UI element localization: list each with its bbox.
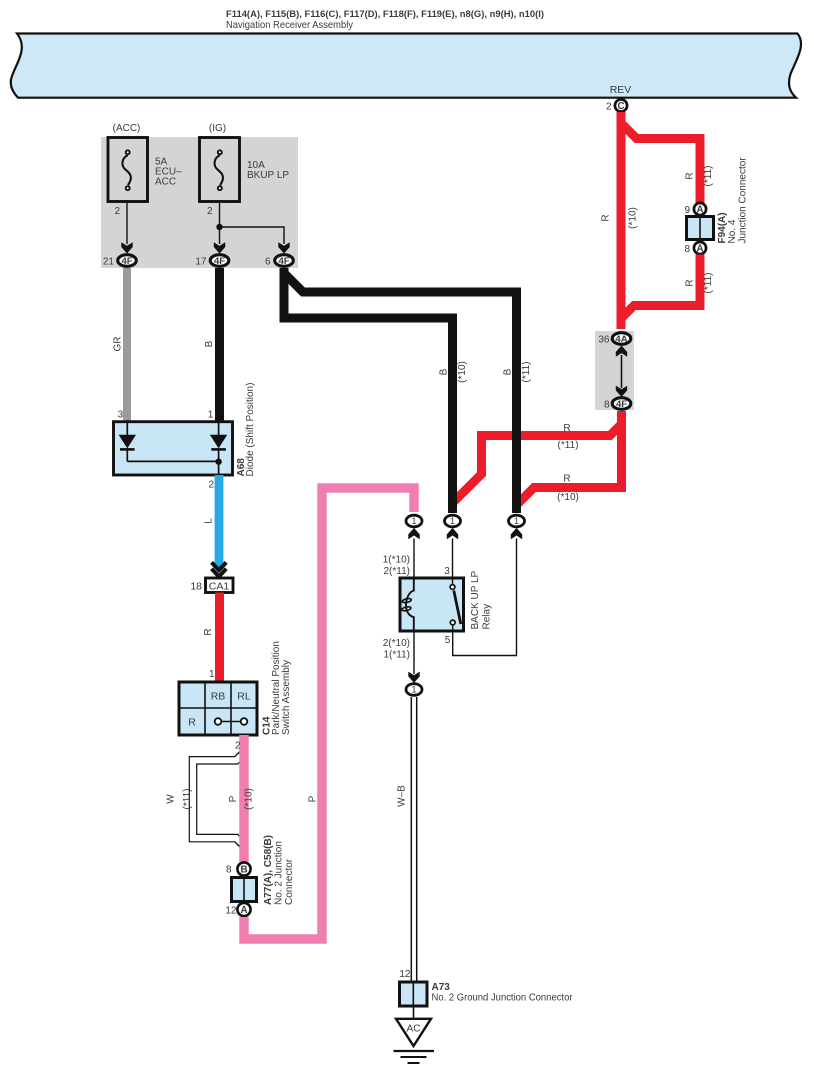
svg-text:4F: 4F [214,256,225,267]
svg-text:2: 2 [208,480,214,491]
wire R main vertical [601,112,639,329]
svg-text:(*11): (*11) [558,440,579,451]
svg-text:ACC: ACC [155,177,176,188]
svg-text:BACK UP LP: BACK UP LP [470,570,481,629]
header title text [226,9,544,31]
svg-text:3: 3 [444,566,450,577]
wire R (*11) lower branch from F94 [621,255,714,319]
svg-text:8: 8 [684,244,690,255]
svg-text:8: 8 [226,865,232,876]
svg-text:Diode (Shift Position): Diode (Shift Position) [245,383,256,477]
svg-text:B: B [439,368,450,375]
wire GR [113,268,128,421]
svg-text:(*11): (*11) [521,362,532,383]
wire R from CA1 to C14 [203,593,220,683]
svg-text:P: P [228,795,239,802]
connector 4F pin 21 [103,242,136,267]
svg-text:4F: 4F [278,256,289,267]
svg-text:2: 2 [606,102,612,113]
ground connector node 1 [406,684,422,696]
ground junction connector A73 [400,982,574,1006]
wire from relay pin 5 to right node [453,539,517,656]
svg-text:Junction Connector: Junction Connector [738,157,749,244]
svg-text:1: 1 [450,516,455,526]
svg-text:R: R [188,717,196,729]
svg-text:8: 8 [604,400,610,411]
wire W-B double line [397,697,417,982]
svg-text:1: 1 [411,516,416,526]
svg-text:(*10): (*10) [244,788,255,810]
relay BACK UP LP [400,566,493,646]
svg-text:W–B: W–B [397,785,408,807]
fuse ECU-ACC 5A [108,123,182,244]
connector 4F pin 17 [195,242,228,267]
svg-text:1(*10): 1(*10) [383,555,410,566]
svg-text:REV: REV [610,84,632,96]
svg-text:Navigation Receiver Assembly: Navigation Receiver Assembly [226,20,353,31]
svg-text:A: A [240,905,247,916]
svg-text:A: A [696,205,703,216]
svg-text:12: 12 [399,969,411,980]
svg-text:Relay: Relay [482,604,493,630]
svg-text:(*11): (*11) [703,273,714,294]
svg-text:No. 4: No. 4 [727,219,738,243]
svg-text:1: 1 [209,669,215,680]
svg-text:R: R [685,172,696,179]
svg-text:R: R [203,628,214,635]
svg-text:18: 18 [190,581,202,593]
svg-text:9: 9 [684,205,690,216]
ground symbol AC [394,1006,435,1063]
svg-text:(*11): (*11) [182,789,193,810]
svg-text:AC: AC [407,1024,421,1035]
svg-text:3: 3 [118,410,124,421]
svg-text:No. 2 Junction: No. 2 Junction [274,841,285,905]
wire R (*11) horizontal to left node [453,423,622,503]
wire R (*11) upper branch to F94 [621,123,714,204]
node REV pin 2 connector C [606,99,627,112]
svg-text:1(*11): 1(*11) [384,650,411,661]
connector block 4A / 4F gray box [595,331,634,411]
svg-text:(ACC): (ACC) [113,123,141,134]
junction connector A77(A) C58(B) No. 2 [225,835,295,917]
svg-text:(IG): (IG) [209,123,226,134]
svg-text:P: P [308,795,319,802]
svg-text:1: 1 [514,516,519,526]
connector 4F pin 6 [265,242,293,267]
svg-text:BKUP LP: BKUP LP [247,170,289,181]
svg-text:1: 1 [208,410,214,421]
chevron arrows into CA1 [212,562,227,576]
wire R below 4F with R(*10) horizontal [518,411,622,504]
fuse block gray box [101,137,298,268]
svg-text:1: 1 [411,685,416,695]
svg-text:R: R [563,474,570,485]
svg-text:2(*10): 2(*10) [383,638,410,649]
svg-text:B: B [503,368,514,375]
svg-text:C: C [617,101,624,112]
wire from relay coil to ground node [383,631,420,683]
svg-text:No. 2 Ground Junction Connect: No. 2 Ground Junction Connector [432,993,574,1004]
svg-text:21: 21 [103,257,115,268]
svg-text:B: B [240,865,247,876]
wire B (*11) from pin 6 to right node [284,268,532,513]
svg-text:Switch Assembly: Switch Assembly [281,660,292,735]
wire P long route from A77 up to relay [244,488,414,939]
connector CA1 pin 18 [190,578,233,593]
wire W (*11) hollow detour [166,752,246,847]
svg-text:(*11): (*11) [703,166,714,187]
svg-text:R: R [563,423,570,434]
wire B from pin 17 [204,268,220,421]
wire branch from fuse BKUP LP to pin 6 with junction dot [216,224,284,244]
wire P from C14 pin 2 to A77 [228,735,255,862]
svg-text:2: 2 [207,206,213,217]
svg-text:RB: RB [211,691,226,703]
svg-text:(*10): (*10) [557,492,579,503]
svg-text:2: 2 [114,206,120,217]
svg-text:A73: A73 [432,982,451,993]
junction connector F94(A) No. 4 [684,157,748,255]
C14 Park/Neutral Position Switch Assembly [179,641,292,735]
svg-text:A: A [696,244,703,255]
svg-text:F114(A), F115(B), F116(C), F11: F114(A), F115(B), F116(C), F117(D), F118… [226,9,544,20]
svg-text:R: R [601,214,612,221]
svg-text:4A: 4A [615,334,627,345]
svg-text:R: R [685,279,696,286]
svg-text:L: L [204,518,215,524]
wire B (*10) from pin 6 to left node [284,268,468,513]
bus band Navigation Receiver Assembly [11,34,801,98]
svg-text:Connector: Connector [284,858,295,905]
svg-text:5: 5 [445,635,451,646]
relay connector node 1 middle [445,515,461,583]
svg-text:A77(A), C58(B): A77(A), C58(B) [263,835,274,905]
svg-text:4F: 4F [121,256,132,267]
svg-text:W: W [166,794,177,804]
svg-text:RL: RL [237,691,251,703]
relay connector node 1 right [509,515,525,539]
svg-text:12: 12 [225,906,237,917]
svg-text:(*10): (*10) [457,361,468,383]
svg-text:(*10): (*10) [628,207,639,229]
diode A68 (Shift Position) [114,383,256,491]
svg-text:GR: GR [113,337,124,352]
svg-text:6: 6 [265,257,271,268]
svg-text:CA1: CA1 [209,580,230,592]
svg-text:4F: 4F [616,399,627,410]
svg-text:2: 2 [235,741,241,752]
relay connector node 1 left (pink) [383,515,422,578]
svg-text:2(*11): 2(*11) [384,566,411,577]
wire L (cyan) [204,475,220,568]
fuse BKUP LP 10A [200,123,290,244]
svg-text:36: 36 [598,335,610,346]
svg-text:B: B [204,340,215,347]
svg-text:17: 17 [195,257,207,268]
